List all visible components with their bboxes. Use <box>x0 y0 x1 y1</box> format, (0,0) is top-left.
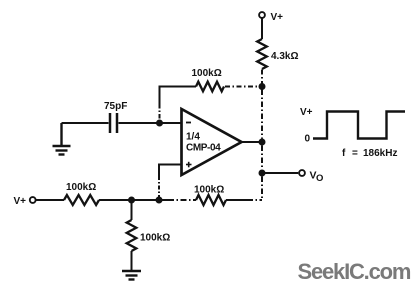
svg-text:100kΩ: 100kΩ <box>194 185 224 196</box>
ground (bottom) <box>122 271 141 280</box>
resistor 100k (top) <box>192 68 225 91</box>
svg-text:0: 0 <box>305 134 311 145</box>
svg-text:V+: V+ <box>300 107 313 118</box>
wire: feedback 100k to bus corner <box>226 199 248 201</box>
wire: node B to op-amp inverting input <box>160 122 182 124</box>
wire: op-amp output to node C <box>242 141 263 143</box>
svg-text:V+: V+ <box>14 196 27 207</box>
wire: node D to feedback 100k (dash-dot) <box>162 199 168 201</box>
resistor 4.3k <box>257 39 298 69</box>
label: f = 186kHz <box>342 148 397 159</box>
wire: V+ terminal to 100k (bottom-left) <box>35 199 64 201</box>
svg-text:100kΩ: 100kΩ <box>140 233 170 244</box>
wire: node F down to 100k (vertical) <box>131 200 133 220</box>
resistor 100k (bottom-left) <box>64 182 99 205</box>
svg-text:186kHz: 186kHz <box>363 148 397 159</box>
wire: inverting-input corner to top 100k <box>160 87 197 105</box>
wire: top 100k to node A (dash-dot) <box>225 86 259 88</box>
wire: R 4.3k to node A (dash-dot) <box>261 70 263 85</box>
wire: capacitor to node B <box>119 122 160 124</box>
svg-text:4.3kΩ: 4.3kΩ <box>271 51 298 62</box>
svg-text:=: = <box>352 148 358 159</box>
wire: node C to node E (dash-dot bus) <box>261 146 263 170</box>
svg-text:75pF: 75pF <box>104 101 127 112</box>
svg-text:100kΩ: 100kΩ <box>66 182 96 193</box>
svg-text:SeekIC.com: SeekIC.com <box>298 259 411 284</box>
capacitor 75pF <box>104 101 127 133</box>
node A: junction 4.3k / 100k top <box>259 83 266 90</box>
node C: output junction <box>259 139 266 146</box>
wire: node E to Vo terminal <box>265 172 298 174</box>
svg-text:100kΩ: 100kΩ <box>192 68 222 79</box>
wire: op-amp non-inverting input to node D <box>159 165 181 177</box>
wire: 100k to ground (bottom) <box>131 251 133 270</box>
wire: 100k to node F <box>99 199 132 201</box>
node D: non-inverting tap junction <box>156 197 163 204</box>
node E: output tap junction <box>259 170 266 177</box>
svg-text:1/4: 1/4 <box>186 132 200 143</box>
output terminal Vo <box>299 170 323 185</box>
waveform: output square wave <box>300 107 405 145</box>
op-amp U1 1/4 CMP-04 <box>182 109 242 175</box>
wire: node F to node D <box>132 199 160 201</box>
node F: divider junction <box>128 197 135 204</box>
ground (left) <box>53 123 71 155</box>
resistor 100k (feedback) <box>194 185 226 206</box>
wire: ground to capacitor <box>62 122 109 124</box>
power terminal V+ (top) <box>259 12 283 23</box>
svg-text:O: O <box>316 173 323 184</box>
resistor 100k (to ground) <box>127 220 171 251</box>
power terminal V+ (bottom-left) <box>14 196 36 207</box>
node B: inverting input junction <box>156 120 163 127</box>
svg-text:V+: V+ <box>271 12 284 23</box>
wire: node E down to feedback corner (dash-dot) <box>261 177 263 201</box>
svg-text:f: f <box>342 148 346 159</box>
wire: V+ terminal to R 4.3k <box>261 18 263 39</box>
svg-text:CMP-04: CMP-04 <box>186 143 221 154</box>
wire: node A to node C (dash-dot bus) <box>261 90 263 139</box>
